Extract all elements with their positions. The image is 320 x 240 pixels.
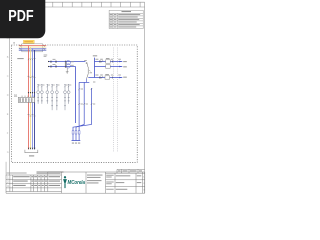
sheet frame top double line with column ticks [10,2,145,7]
row letters on left margin [7,37,9,154]
run3 end arrow [119,77,122,79]
auxiliary contact/sensor row [37,84,70,110]
S1 label [84,59,87,62]
contact marks on drops [78,88,92,105]
cable slash marks across wires [28,58,36,60]
T1 primary ticks [64,61,67,68]
company logo icon [63,176,67,188]
svg-text:PDF: PDF [8,8,34,25]
revision table row entries [110,14,141,27]
neutral feeder (dark blue) [19,49,47,51]
relay K1 box on run1 [106,60,111,63]
breaker pole-top terminals [21,95,34,97]
revision row 2 [7,181,60,184]
zone divider dashed line 2 [117,48,119,153]
revision table header text [122,10,132,13]
branch run 3 (bottom) [88,77,122,79]
coil K3 [78,131,80,134]
relay K3 box on run3 [105,76,110,79]
run2 end arrow [119,66,122,68]
aux lead top terminals [37,83,69,85]
fuse ticks on wire A [51,61,57,63]
highlighted source label (yellow) [23,40,34,43]
main breaker Q1 body [18,97,34,102]
node labels above [93,54,97,57]
run1 end label [123,60,127,63]
left terminal ticks [19,45,21,50]
incoming supply box X1 [22,44,43,52]
outgoing cable label [29,155,34,156]
drop labels [81,82,96,105]
phase L2 feeder (yellow) [19,46,47,48]
run1 contact ticks [100,60,113,62]
labels below coil bus [72,142,80,145]
fuse ticks on wire B [51,65,57,67]
float switch S1 [86,63,90,79]
aux row top labels [39,84,71,87]
revision row 1 [7,176,60,179]
T1 label [71,60,74,63]
power supply / transformer T1 [66,61,70,69]
terminal dots [48,61,49,62]
wire number dashes lower run [28,115,36,116]
control bus vertical at x75 [75,67,77,124]
svg-text:C: C [7,75,9,78]
phase L3 feeder (blue) [19,48,47,50]
wire N drop (dark blue) [34,50,36,149]
svg-text:MCorela: MCorela [68,180,86,186]
run3 labels above [95,74,98,77]
control feed vertical at x94 [94,58,96,78]
revision row 3 [7,185,60,188]
wire L2 drop (yellow) [30,47,32,149]
right terminal ticks [43,45,45,50]
title block left riser [5,162,7,175]
phase L1 feeder (red) [19,45,47,47]
run3 end label [123,76,127,79]
run3 contact ticks [100,76,113,78]
svg-text:G: G [7,151,9,154]
wire number labels mid-run [28,76,36,77]
coil supply bus [72,140,81,142]
run2 end label [123,65,127,68]
revision table (top right) [109,10,143,28]
cable marker label left of wires [17,57,23,60]
breaker poles row 2 [19,100,32,101]
S1 lower lead to coil bus [86,79,88,83]
zone divider dashed line 1 [113,48,115,153]
branch run 1 (top) [95,61,123,63]
wire L3 drop (blue) [32,49,34,150]
run1 labels above [95,58,98,61]
project description text lines [87,175,103,184]
branch run 2 (middle) [95,66,123,68]
control circuit: wire B [49,66,76,68]
right info cells text [106,171,145,192]
svg-text:D: D [7,94,9,97]
feeder wire arrowheads [28,148,36,150]
supply label text right of box [44,54,48,57]
border corner marker [13,42,15,43]
title block outer box [6,169,145,193]
breaker poles row 1 [19,98,32,99]
contactor coil drops from switch bus [73,82,92,140]
run1 end arrow [119,61,122,63]
outgoing cable gland bracket [25,150,38,153]
sheet frame left border [9,2,11,175]
wire L1 drop (red) [28,46,30,150]
relay K2 box on run2 [106,65,111,68]
control circuit: wire A (top) [49,61,86,63]
dashed drawing border [11,45,137,162]
title block header disclaimer text [7,172,27,175]
direction arrows on wires [28,92,35,94]
sheet frame right border [144,2,146,193]
T1 earth symbol [66,68,69,74]
PDF badge [0,0,45,38]
coil K2 [75,131,77,134]
tiny labels above wire A [53,58,56,61]
coil K1 [72,131,74,134]
